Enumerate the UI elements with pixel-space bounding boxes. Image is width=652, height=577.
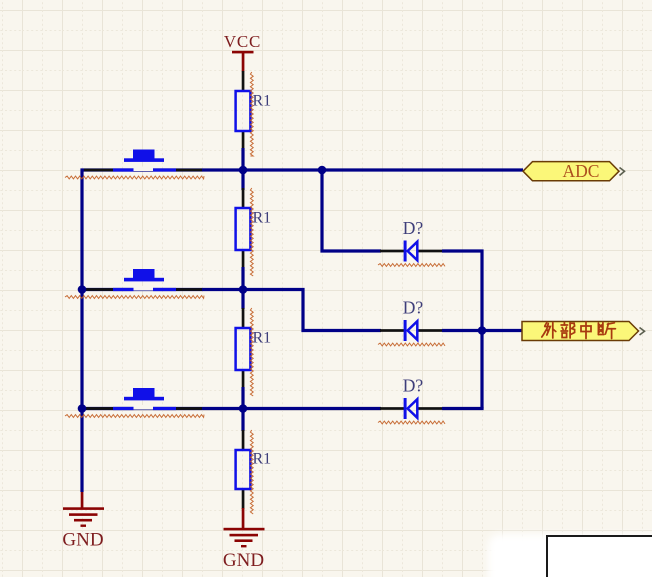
junction (row3 / left rail) xyxy=(78,404,87,413)
resistor R1 (second) xyxy=(236,188,272,268)
ERC marker (S1) xyxy=(65,176,204,179)
junction (row1 / drop to D1) xyxy=(318,166,327,175)
ERC marker (D? (middle)) xyxy=(378,343,445,346)
wire: left rail xyxy=(80,169,83,493)
junction (row1 / center rail) xyxy=(239,166,248,175)
wire xyxy=(442,407,484,410)
ERC marker (S2) xyxy=(65,296,204,299)
push button S3 xyxy=(84,388,202,410)
junction (right rail / port wire) xyxy=(478,326,487,335)
wire (row 1 trunk) xyxy=(81,168,524,171)
svg-text:VCC: VCC xyxy=(224,32,261,51)
wire xyxy=(442,251,482,409)
svg-text:D?: D? xyxy=(403,218,424,238)
ERC marker (R1 third) xyxy=(250,308,253,396)
ERC marker (S3) xyxy=(65,415,204,418)
svg-text:R1: R1 xyxy=(253,330,272,347)
ERC marker (R1 fourth) xyxy=(250,430,253,514)
svg-text:D?: D? xyxy=(403,298,424,318)
svg-text:R1: R1 xyxy=(253,93,272,110)
wire xyxy=(241,387,244,431)
junction (row2 / center rail) xyxy=(239,285,248,294)
wire xyxy=(243,290,381,331)
diode D? (middle) xyxy=(380,298,443,342)
ERC marker (D? (bottom)) xyxy=(378,421,445,424)
port ADC xyxy=(523,161,619,181)
power wire to ground (left) xyxy=(81,492,84,509)
junction (row2 / left rail) xyxy=(78,285,87,294)
title block corner xyxy=(547,536,652,577)
diode D? (top) xyxy=(380,218,443,262)
power port VCC xyxy=(224,32,261,72)
resistor R1 (fourth) xyxy=(236,430,272,509)
svg-text:R1: R1 xyxy=(253,210,272,227)
ERC marker (R1 top) xyxy=(250,72,253,156)
port arrow mark xyxy=(640,328,645,336)
port 外部中断 xyxy=(522,322,639,341)
wire (row 2 trunk) xyxy=(81,288,244,291)
svg-text:GND: GND xyxy=(62,530,103,551)
svg-text:GND: GND xyxy=(223,550,264,571)
wire (row 3 trunk) xyxy=(81,407,244,410)
ERC marker (D? (top)) xyxy=(378,264,445,267)
ground GND (left) xyxy=(62,507,104,550)
svg-text:ADC: ADC xyxy=(563,161,600,181)
power wire to ground (center) xyxy=(242,508,245,529)
resistor R1 (third) xyxy=(236,308,272,389)
wire (to port) xyxy=(482,329,522,332)
ground GND (center) xyxy=(223,528,265,571)
wire xyxy=(241,267,244,309)
svg-text:R1: R1 xyxy=(253,451,272,468)
svg-text:D?: D? xyxy=(403,376,424,396)
wire xyxy=(322,170,381,251)
white overlay (bottom right) xyxy=(488,534,652,577)
wire xyxy=(442,329,482,332)
diode D? (bottom) xyxy=(380,376,443,420)
ERC marker (R1 second) xyxy=(250,188,253,276)
push button S2 xyxy=(84,269,202,291)
junction (row3 / center rail) xyxy=(239,404,248,413)
port arrow mark xyxy=(620,168,625,176)
wire xyxy=(243,407,381,410)
resistor R1 (top) xyxy=(236,71,272,149)
wire xyxy=(241,148,244,190)
push button S1 xyxy=(84,150,202,172)
